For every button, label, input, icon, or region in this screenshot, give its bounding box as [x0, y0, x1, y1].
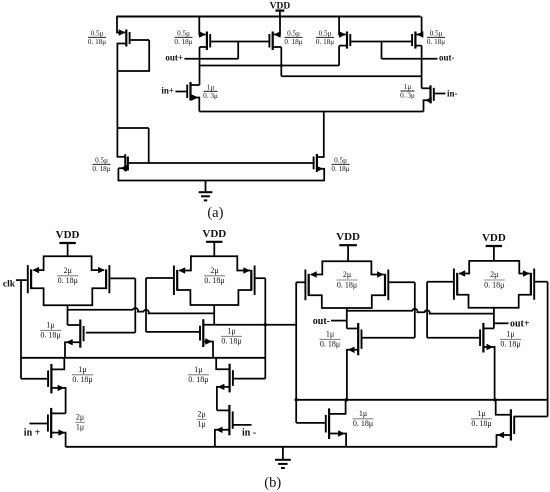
- power symbol VDD cell4: [482, 232, 506, 261]
- wire PMOS2 source pipe: [199, 17, 205, 35]
- label PMOS3 0.5u/0.18u: [284, 29, 302, 46]
- wire V4R vertical: [547, 282, 549, 417]
- wire in- source lead: [424, 100, 431, 111]
- wire M_B1 drain lead: [51, 358, 64, 370]
- label cell2 2u/0.18u: [204, 266, 225, 285]
- wire cell1 right source: [92, 256, 104, 271]
- wire cell2 right source: [237, 255, 250, 270]
- svg-text:0. 18μ: 0. 18μ: [221, 337, 241, 346]
- svg-text:1μ: 1μ: [197, 420, 205, 429]
- label Min- 1u/0.3u: [400, 83, 415, 100]
- svg-text:(b): (b): [264, 475, 281, 491]
- svg-text:0. 18μ: 0. 18μ: [427, 38, 445, 46]
- wire cell2 left source: [179, 255, 191, 270]
- wire PMOS2 drain to in+ drain: [199, 47, 201, 85]
- label in+: [161, 85, 174, 95]
- svg-text:2μ: 2μ: [210, 266, 218, 275]
- wire M_L2 gate lead: [146, 331, 199, 333]
- transistor M_L1 NMOS 1u/0.18u: [66, 320, 84, 348]
- node junction PMOS3 drain / line B: [280, 64, 283, 67]
- transistor Min- NMOS 1u/0.3u: [425, 85, 434, 103]
- wire cell3 output stem: [346, 308, 348, 329]
- label out-: [313, 316, 330, 327]
- label (b): [264, 475, 281, 491]
- wire V1 vertical (cell3 input): [295, 282, 297, 423]
- wire M6 drain / M7 gate line: [128, 162, 315, 164]
- wire M6 source lead: [118, 167, 127, 169]
- svg-text:0. 18μ: 0. 18μ: [316, 38, 334, 46]
- wire in+ gate lead: [175, 91, 186, 93]
- node junction V1/H_bot: [295, 398, 298, 401]
- wire cell2 roof: [191, 255, 237, 257]
- svg-text:0. 18μ: 0. 18μ: [204, 276, 224, 285]
- wire M_L2 source lead: [203, 342, 213, 358]
- svg-text:VDD: VDD: [56, 229, 80, 241]
- wire M1 source from rail: [117, 16, 125, 33]
- transistor M1 PMOS 0.5u/0.18u: [119, 29, 130, 46]
- wire cell1 left drain: [31, 288, 43, 306]
- wire cell1 right drain: [92, 288, 106, 306]
- svg-text:1μ: 1μ: [78, 365, 86, 374]
- wire M_B1 gate lead: [21, 378, 47, 380]
- wire out- lead: [382, 58, 438, 60]
- svg-text:2μ: 2μ: [197, 409, 205, 418]
- wire PMOS4 drain lead: [339, 45, 347, 47]
- transistor cell1 right PMOS 2u/0.18u: [98, 265, 109, 293]
- wire cell2 floor: [190, 304, 238, 306]
- wire out- lead: [331, 320, 347, 322]
- wire M_L1 gate lead: [86, 332, 135, 334]
- ground symbol (b): [275, 447, 291, 468]
- svg-text:in+: in+: [161, 85, 174, 95]
- label out+: [510, 318, 530, 329]
- svg-text:0. 18μ: 0. 18μ: [337, 280, 357, 289]
- svg-text:0.5μ: 0.5μ: [287, 29, 300, 37]
- svg-text:1μ: 1μ: [76, 423, 84, 432]
- wire cell4 left gate lead: [427, 281, 453, 283]
- wire M_B2 gate lead: [234, 378, 266, 380]
- transistor cell4 right PMOS 2u/0.18u: [523, 269, 534, 300]
- wire in+ source lead: [191, 98, 200, 112]
- wire clk drop: [20, 280, 22, 379]
- label PMOS4 0.5u/0.18u: [316, 29, 334, 46]
- wire out+ lead: [184, 58, 238, 60]
- label cell3 2u/0.18u: [337, 270, 358, 289]
- wire PMOS5 drain drop to in- drain: [421, 46, 423, 89]
- transistor Min+ NMOS 1u/0.3u: [187, 82, 198, 101]
- wire PMOS4-PMOS5 gate line: [351, 41, 411, 43]
- wire out+ lead: [494, 322, 509, 324]
- wire M_L4 gate lead: [427, 337, 479, 339]
- wire M_L1 source lead: [65, 342, 80, 358]
- wire H_bot clock rail: [296, 399, 547, 401]
- transistor cell3 right PMOS 2u/0.18u: [377, 270, 388, 301]
- svg-text:0. 18μ: 0. 18μ: [471, 419, 491, 428]
- wire cell2 right gate lead: [256, 277, 266, 279]
- wire M_B2 source lead: [217, 387, 230, 411]
- svg-text:1μ: 1μ: [227, 326, 235, 335]
- wire M_B4 gate lead: [514, 416, 547, 418]
- transistor PMOS2 0.5u/0.18u: [199, 31, 210, 50]
- transistor PMOS3 0.5u/0.18u: [269, 31, 280, 50]
- label M_L4 1u/0.18u: [500, 329, 521, 348]
- wire PMOS5 drain lead: [415, 45, 421, 47]
- wire M6 gate lead: [117, 156, 124, 158]
- wire cell4 right source: [519, 260, 529, 273]
- svg-text:0. 18μ: 0. 18μ: [188, 375, 208, 384]
- transistor M_in2 NMOS 2u/1u: [216, 405, 233, 435]
- wire cell2 right drain: [238, 290, 251, 306]
- label out-: [439, 52, 455, 62]
- label cell4 2u/0.18u: [484, 270, 505, 289]
- label M1 0.5u/0.18u: [88, 29, 106, 46]
- ground symbol (a): [199, 181, 213, 201]
- transistor M_B1 NMOS 1u/0.18u: [48, 364, 64, 394]
- wire cell1 right gate lead: [110, 277, 135, 279]
- svg-text:0. 3μ: 0. 3μ: [400, 92, 415, 100]
- wire V_A vertical: [134, 278, 136, 332]
- wire M_in1 drain lead: [51, 412, 65, 414]
- svg-text:0. 3μ: 0. 3μ: [203, 92, 218, 100]
- transistor PMOS4 0.5u/0.18u: [339, 31, 350, 48]
- wire VDD rail (a): [117, 16, 421, 18]
- wire PMOS2 drain lead: [200, 46, 207, 48]
- wire in+ gate lead (b): [29, 423, 47, 425]
- label in-: [447, 88, 458, 98]
- wire tail rail (a): [199, 111, 423, 113]
- wire cell1 roof: [44, 255, 92, 257]
- transistor cell2 right PMOS 2u/0.18u: [243, 266, 254, 296]
- svg-text:2μ: 2μ: [490, 270, 498, 279]
- label PMOS5 0.5u/0.18u: [427, 29, 445, 46]
- transistor cell2 left PMOS 2u/0.18u: [174, 266, 185, 296]
- wire M_L3 source lead: [347, 350, 358, 400]
- transistor PMOS5 0.5u/0.18u: [412, 31, 423, 48]
- wire ground rail (a): [118, 180, 325, 182]
- wire cell3 left gate lead: [296, 281, 304, 283]
- wire M_L4 source lead: [483, 347, 494, 400]
- wire line B (in+ branch): [200, 65, 340, 67]
- svg-text:0. 18μ: 0. 18μ: [484, 280, 504, 289]
- wire in- gate lead (b): [234, 424, 252, 426]
- wire M7 source lead: [317, 169, 324, 182]
- wire PMOS5 source pipe: [417, 17, 422, 35]
- label (a): [207, 205, 223, 221]
- transistor M_L2 NMOS 1u/0.18u: [200, 319, 212, 347]
- power symbol VDD (a): [270, 1, 291, 16]
- svg-text:(a): (a): [207, 205, 223, 221]
- wire latch rail (b): [21, 357, 265, 359]
- transistor cell1 left PMOS 2u/0.18u: [28, 265, 39, 293]
- label M7 0.5u/0.18u: [331, 156, 349, 173]
- wire H_t cell2 output to cell3 input: [203, 324, 296, 326]
- svg-text:0. 18μ: 0. 18μ: [58, 276, 78, 285]
- power symbol VDD cell3: [336, 231, 360, 261]
- label M_B2 1u/0.18u: [188, 365, 209, 384]
- wire in- gate lead: [435, 93, 446, 95]
- svg-text:1μ: 1μ: [46, 320, 54, 329]
- wire M_L3 gate lead: [362, 337, 415, 339]
- label in -: [242, 427, 256, 438]
- wire line E to in- drain: [281, 75, 421, 77]
- wire M_B3 drain lead: [329, 400, 346, 414]
- wire PMOS3 source pipe (shared with VDD stem): [274, 17, 280, 35]
- wire clk gate lead: [16, 279, 27, 281]
- svg-text:0. 18μ: 0. 18μ: [331, 165, 349, 173]
- svg-text:VDD: VDD: [202, 228, 226, 240]
- svg-text:0.5μ: 0.5μ: [319, 29, 332, 37]
- wire PMOS2-PMOS3 gate line: [211, 41, 268, 43]
- wire cell3 right source: [371, 261, 383, 275]
- wire PMOS3 drain drop: [280, 47, 282, 76]
- wire M_in2 drain lead: [217, 409, 230, 411]
- wire cell3 roof: [322, 260, 371, 262]
- label M_L1 1u/0.18u: [40, 320, 61, 339]
- wire in- drain lead: [422, 87, 431, 89]
- wire cell2 left drain: [177, 290, 190, 306]
- label M6 0.5u/0.18u: [92, 156, 110, 173]
- transistor M_L4 NMOS 1u/0.18u: [480, 323, 493, 353]
- svg-text:0.5μ: 0.5μ: [334, 156, 347, 164]
- transistor cell4 left PMOS 2u/0.18u: [454, 269, 465, 300]
- svg-text:1μ: 1μ: [207, 83, 215, 91]
- wire V_B vertical: [145, 278, 147, 332]
- wire M_B3 source lead: [329, 434, 346, 447]
- label M_B3 1u/0.18u: [353, 409, 374, 428]
- wire cell2 output stem: [213, 305, 215, 325]
- wire M1 drain to M6 gate (bias line): [116, 43, 118, 158]
- wire M_B1 source lead: [51, 388, 65, 414]
- wire H2 cell3-cell4 link: [347, 309, 494, 314]
- svg-text:VDD: VDD: [482, 232, 506, 244]
- wire cell4 right gate lead: [535, 281, 548, 283]
- wire PMOS4 source pipe: [339, 17, 346, 35]
- wire cell3 right drain: [372, 295, 385, 309]
- wire cell1 floor: [44, 304, 93, 306]
- svg-text:in-: in-: [447, 88, 458, 98]
- wire cell4 right drain: [519, 295, 531, 309]
- svg-text:0.5μ: 0.5μ: [91, 29, 104, 37]
- wire cell3 left source: [311, 261, 322, 275]
- wire H1 cell1-cell2 link: [68, 308, 215, 313]
- svg-text:0. 18μ: 0. 18μ: [40, 331, 60, 340]
- power symbol VDD cell1: [56, 229, 80, 256]
- svg-text:clk: clk: [3, 280, 16, 290]
- transistor M_B3 NMOS 1u/0.18u: [326, 408, 345, 439]
- transistor M6 NMOS 0.5u/0.18u: [120, 154, 128, 171]
- wire M_L4 drain lead: [483, 327, 494, 329]
- wire cell3 right gate lead: [389, 281, 415, 283]
- svg-text:1μ: 1μ: [477, 409, 485, 418]
- svg-text:VDD: VDD: [336, 231, 360, 243]
- wire cell2 left gate lead: [146, 277, 173, 279]
- svg-text:in -: in -: [242, 427, 256, 438]
- svg-text:0. 18μ: 0. 18μ: [72, 375, 92, 384]
- wire M_B4 source lead: [497, 435, 511, 447]
- label M_B1 1u/0.18u: [72, 365, 93, 384]
- wire M_in2 source lead: [215, 430, 230, 447]
- wire cell3 left drain: [309, 295, 322, 309]
- svg-text:out-: out-: [439, 52, 455, 62]
- svg-text:1μ: 1μ: [326, 329, 334, 338]
- svg-text:0. 18μ: 0. 18μ: [353, 419, 373, 428]
- wire cell1 output stem: [67, 305, 69, 325]
- node junction V0/H_t: [264, 323, 267, 326]
- wire cell1 left source: [34, 256, 44, 271]
- wire M6 diode loop top: [117, 127, 148, 129]
- wire cell4 left source: [459, 260, 469, 273]
- svg-text:1μ: 1μ: [404, 83, 412, 91]
- label M_in2 2u/1u: [197, 409, 206, 428]
- power symbol VDD cell2: [202, 228, 226, 256]
- wire M_B2 drain lead: [216, 358, 229, 369]
- svg-text:0.5μ: 0.5μ: [177, 29, 190, 37]
- svg-text:0. 18μ: 0. 18μ: [500, 340, 520, 349]
- transistor M7 NMOS 0.5u/0.18u: [314, 154, 323, 172]
- svg-text:in +: in +: [24, 427, 41, 438]
- svg-text:0. 18μ: 0. 18μ: [88, 38, 106, 46]
- wire PMOS4 drain drop: [338, 46, 340, 66]
- svg-text:0.5μ: 0.5μ: [430, 29, 443, 37]
- wire M_B4 drain lead: [496, 400, 511, 415]
- svg-text:1μ: 1μ: [359, 409, 367, 418]
- transistor M_in1 NMOS 2u/1u: [48, 408, 65, 438]
- wire V_C vertical: [414, 282, 416, 338]
- label Min+ 1u/0.3u: [203, 83, 218, 100]
- label M_in1 2u/1u: [75, 412, 85, 431]
- transistor M_B4 NMOS 1u/0.18u: [497, 409, 514, 440]
- svg-text:out+: out+: [165, 52, 183, 62]
- wire M_in1 source lead: [51, 433, 65, 447]
- svg-text:2μ: 2μ: [343, 270, 351, 279]
- label in +: [24, 427, 41, 438]
- label PMOS2 0.5u/0.18u: [174, 29, 192, 46]
- wire cell4 floor: [469, 307, 519, 309]
- transistor M_B2 NMOS 1u/0.18u: [218, 364, 233, 393]
- svg-text:0. 18μ: 0. 18μ: [174, 38, 192, 46]
- transistor cell3 left PMOS 2u/0.18u: [305, 270, 316, 301]
- wire ground rail (b): [66, 446, 497, 448]
- svg-text:0. 18μ: 0. 18μ: [284, 38, 302, 46]
- wire V0 vertical: [264, 278, 266, 378]
- wire M_L1 drain lead: [68, 324, 81, 326]
- svg-text:1μ: 1μ: [194, 365, 202, 374]
- wire M6 source to ground rail: [117, 168, 119, 181]
- wire M1 drain lead: [117, 43, 126, 45]
- node junction M_L3 source/H_bot: [345, 398, 348, 401]
- transistor M_L3 NMOS 1u/0.18u: [348, 323, 362, 355]
- svg-text:0.5μ: 0.5μ: [95, 156, 108, 164]
- wire out- riser: [381, 42, 383, 59]
- wire in+ drain lead: [191, 84, 200, 86]
- wire V_D vertical: [426, 282, 428, 338]
- svg-text:0. 18μ: 0. 18μ: [92, 165, 110, 173]
- label M_L3 1u/0.18u: [320, 329, 341, 348]
- wire M_B3 gate lead: [296, 422, 325, 424]
- wire M7 drain lead: [317, 112, 324, 158]
- wire cell3 floor: [322, 307, 372, 309]
- wire cell4 output stem: [493, 308, 495, 329]
- wire M_L3 drain lead: [347, 328, 358, 330]
- svg-text:2μ: 2μ: [64, 266, 72, 275]
- wire out+ riser: [237, 42, 239, 59]
- wire M1 gate lead: [131, 39, 150, 41]
- svg-text:2μ: 2μ: [76, 412, 84, 421]
- label M_L2 1u/0.18u: [221, 326, 242, 345]
- svg-text:out-: out-: [313, 316, 330, 327]
- wire PMOS3 drain lead: [273, 46, 282, 48]
- svg-text:out+: out+: [510, 318, 530, 329]
- label out+: [165, 52, 183, 62]
- svg-text:1μ: 1μ: [506, 329, 514, 338]
- label clk: [3, 280, 16, 290]
- label M_B4 1u/0.18u: [471, 409, 492, 428]
- wire M6 diode loop right: [148, 128, 150, 164]
- node junction M_L4 source/H_bot: [493, 398, 496, 401]
- wire cell4 roof: [469, 260, 519, 262]
- label cell1 2u/0.18u: [57, 266, 78, 285]
- svg-text:0. 18μ: 0. 18μ: [320, 340, 340, 349]
- wire M1 gate-drain loop: [117, 40, 149, 71]
- wire cell4 left drain: [457, 295, 468, 309]
